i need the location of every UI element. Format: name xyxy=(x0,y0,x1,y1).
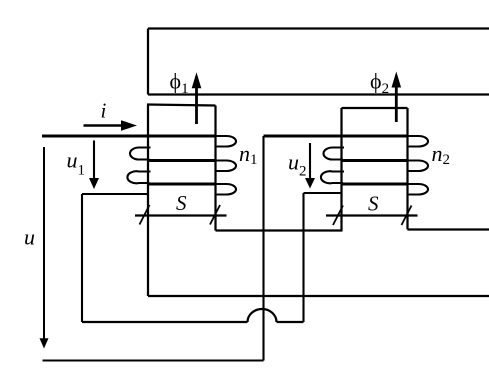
wire: coil 2 entry lead xyxy=(264,135,342,138)
inductor L1 turn 3 right arc xyxy=(216,184,237,195)
flux arrow phi2 xyxy=(392,72,402,123)
voltage arrow u2 xyxy=(305,143,315,189)
wire: source top lead with current i into coil 1 xyxy=(42,135,148,138)
inductor L2 turn 1 left arc xyxy=(324,148,344,160)
inductor L1 turn 3 front xyxy=(148,183,216,186)
svg-text:u1: u1 xyxy=(67,148,86,179)
inductor L1 turn 1 front xyxy=(148,135,216,138)
dimension line S of limb 2 with slashes xyxy=(326,206,418,226)
svg-text:S: S xyxy=(368,192,379,216)
svg-text:n1: n1 xyxy=(239,141,258,168)
svg-text:ϕ1: ϕ1 xyxy=(170,69,189,98)
wire: crossover hop link from u1 branch to coil 2 exit xyxy=(82,309,304,322)
inductor L2 turn 1 right arc xyxy=(408,136,429,147)
svg-text:n2: n2 xyxy=(432,141,451,168)
inductor L1 turn 2 right arc xyxy=(216,161,237,172)
wire: coil 2 bottom exit lead xyxy=(304,192,342,194)
svg-text:u: u xyxy=(24,225,35,250)
voltage arrow u1 xyxy=(89,141,99,190)
inductor L1 turn 2 front xyxy=(148,159,216,162)
inductor L2 turn 3 front xyxy=(342,183,408,186)
inductor L1 turn 1 right arc xyxy=(216,136,237,147)
wire: u1 branch vertical down xyxy=(81,194,83,322)
core window bottom B xyxy=(408,228,489,230)
svg-text:S: S xyxy=(176,191,187,215)
svg-text:i: i xyxy=(101,99,107,123)
core top yoke rectangle xyxy=(148,29,489,95)
current arrow i xyxy=(84,120,138,131)
core window bottom A xyxy=(216,229,343,231)
core bottom yoke xyxy=(148,295,489,297)
core limb 2 (right leg) xyxy=(342,108,408,231)
wire: source bottom return lead xyxy=(43,359,264,361)
wire: coil 1 bottom exit lead xyxy=(82,193,148,195)
dimension line S of limb 1 with slashes xyxy=(135,205,227,225)
core limb 1 (left leg) xyxy=(147,105,216,297)
inductor L2 turn 2 front xyxy=(342,159,408,162)
voltage arrow u (source) xyxy=(40,147,49,349)
flux arrow phi1 xyxy=(192,72,202,124)
inductor L1 turn 1 left arc xyxy=(130,148,151,160)
wire: return riser to coil 2 entry xyxy=(262,136,264,361)
inductor L2 turn 1 front xyxy=(342,135,408,138)
inductor L2 turn 3 right arc xyxy=(408,184,429,195)
svg-text:u2: u2 xyxy=(288,150,307,180)
inductor L2 turn 2 left arc xyxy=(321,171,344,183)
svg-text:ϕ2: ϕ2 xyxy=(370,69,389,98)
wire: coil 2 exit vertical riser xyxy=(302,193,304,322)
inductor L1 turn 2 left arc xyxy=(127,171,150,183)
inductor L2 turn 2 right arc xyxy=(408,161,429,172)
